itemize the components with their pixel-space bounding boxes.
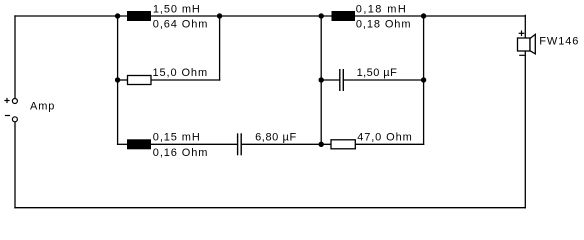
label C1 value 1,50 uF	[357, 67, 398, 79]
inductor L2 body	[332, 11, 356, 21]
inductor L3 body	[127, 139, 151, 149]
wire vertical branch 2 (x=219.6)	[219, 16, 221, 80]
label L3 value 0,15 mH	[153, 131, 201, 143]
svg-text:1,50 mH: 1,50 mH	[153, 3, 201, 15]
wire right drop to speaker plus	[524, 15, 526, 38]
node top-4 junction	[421, 13, 426, 18]
wire vertical branch 3 (x=321.2)	[320, 16, 322, 144]
node mid-4 junction	[421, 77, 426, 82]
wire vertical branch 1 (x=117.6)	[117, 16, 119, 144]
wire lead node to R1	[118, 79, 128, 81]
svg-text:0,18 Ohm: 0,18 Ohm	[356, 19, 412, 31]
svg-text:Amp: Amp	[30, 100, 55, 112]
Amp - terminal circle	[12, 117, 17, 122]
svg-text:1,50 µF: 1,50 µF	[357, 67, 398, 79]
speaker U1 cone	[530, 34, 535, 54]
svg-text:FW146: FW146	[539, 35, 579, 47]
node mid-1 junction	[115, 77, 120, 82]
wire lead branch1 to L3	[118, 143, 127, 145]
wire left rail lower (Amp - terminal to bottom)	[14, 122, 16, 208]
Amp + terminal circle	[12, 99, 17, 104]
svg-text:6,80 µF: 6,80 µF	[255, 131, 297, 143]
inductor L1 body	[127, 11, 151, 21]
label R2 value 47,0 Ohm	[357, 131, 413, 143]
wire bottom rail	[15, 207, 525, 209]
label Amp source	[30, 100, 55, 112]
node top-1 junction	[115, 13, 120, 18]
speaker U1 driver square	[518, 38, 531, 51]
label R1 value 15,0 Ohm	[153, 67, 209, 79]
svg-text:0,18 mH: 0,18 mH	[356, 3, 407, 15]
label L2 resistance 0,18 Ohm	[356, 19, 412, 31]
label L1 resistance 0,64 Ohm	[153, 19, 209, 31]
svg-text:0,15 mH: 0,15 mH	[153, 131, 201, 143]
wire node to C1	[321, 79, 339, 81]
resistor R1 body	[128, 76, 152, 85]
svg-text:15,0 Ohm: 15,0 Ohm	[153, 67, 209, 79]
Amp + sign	[4, 98, 9, 103]
node top-2 junction	[217, 13, 222, 18]
wire L3 to C2	[151, 143, 237, 145]
wire vertical branch 4 (x=423.6)	[423, 16, 425, 144]
label speaker FW146	[539, 35, 579, 47]
capacitor C2 plates	[238, 133, 242, 155]
Amp - sign	[5, 115, 10, 117]
wire R2 to vertical branch 4	[355, 143, 423, 145]
capacitor C1 plates	[340, 69, 344, 91]
label L2 value 0,18 mH	[356, 3, 407, 15]
node top-3 junction	[319, 13, 324, 18]
wire speaker minus down	[524, 51, 526, 208]
label L3 resistance 0,16 Ohm	[153, 147, 209, 159]
wire C1 to vertical branch 4	[344, 79, 424, 81]
svg-text:0,64 Ohm: 0,64 Ohm	[153, 19, 209, 31]
svg-text:0,16 Ohm: 0,16 Ohm	[153, 147, 209, 159]
wire top rail	[15, 15, 525, 17]
node bottom-3 junction	[319, 142, 324, 147]
label L1 value 1,50 mH	[153, 3, 201, 15]
speaker + sign	[519, 31, 525, 37]
label C2 value 6,80 uF	[255, 131, 297, 143]
wire R1 to vertical branch 2	[151, 79, 220, 81]
wire C2 to node and R2	[242, 143, 331, 145]
speaker - sign	[519, 54, 525, 56]
svg-text:47,0 Ohm: 47,0 Ohm	[357, 131, 413, 143]
node mid-3 junction	[319, 77, 324, 82]
wire left rail upper (top to Amp + terminal)	[14, 16, 16, 99]
resistor R2 body	[331, 140, 355, 149]
